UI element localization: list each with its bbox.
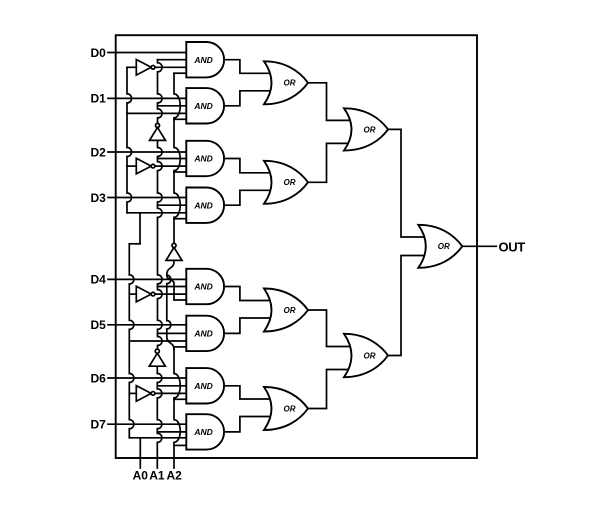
svg-text:AND: AND xyxy=(193,282,212,292)
svg-text:A0: A0 xyxy=(133,469,149,483)
svg-text:D2: D2 xyxy=(90,145,106,159)
svg-text:D4: D4 xyxy=(90,273,106,287)
svg-text:AND: AND xyxy=(193,381,212,391)
svg-text:D6: D6 xyxy=(90,371,106,385)
svg-text:AND: AND xyxy=(193,101,212,111)
svg-text:D7: D7 xyxy=(90,418,106,432)
svg-text:OR: OR xyxy=(284,79,296,88)
svg-text:AND: AND xyxy=(193,329,212,339)
svg-text:OUT: OUT xyxy=(499,239,526,254)
svg-text:OR: OR xyxy=(284,404,296,413)
svg-text:OR: OR xyxy=(438,242,450,251)
svg-text:AND: AND xyxy=(193,200,212,210)
svg-text:OR: OR xyxy=(284,178,296,187)
svg-text:D5: D5 xyxy=(90,318,106,332)
svg-text:A2: A2 xyxy=(167,469,183,483)
svg-text:AND: AND xyxy=(193,427,212,437)
svg-text:OR: OR xyxy=(364,351,376,360)
svg-text:A1: A1 xyxy=(149,469,165,483)
svg-text:D1: D1 xyxy=(90,92,106,106)
svg-text:AND: AND xyxy=(193,55,212,65)
svg-text:D3: D3 xyxy=(90,191,106,205)
svg-text:OR: OR xyxy=(364,125,376,134)
svg-text:D0: D0 xyxy=(90,46,106,60)
svg-text:AND: AND xyxy=(193,154,212,164)
svg-text:OR: OR xyxy=(284,306,296,315)
